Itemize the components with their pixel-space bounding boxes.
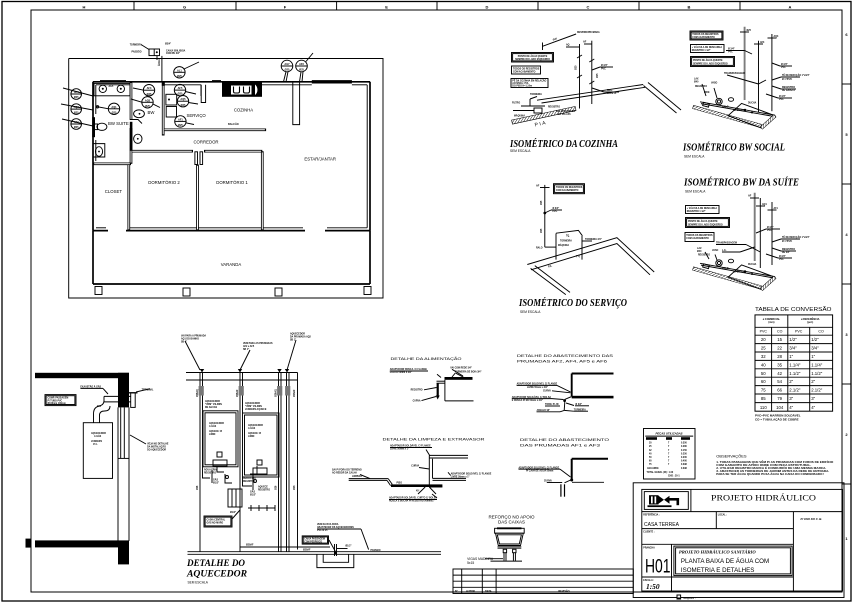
note box: registros (512, 66, 541, 74)
svg-text:LIVRE 50mm x 1": LIVRE 50mm x 1" (390, 449, 409, 451)
svg-text:DO AQUECEDOR: DO AQUECEDOR (147, 449, 166, 452)
svg-text:Ø25: Ø25 (112, 111, 117, 114)
svg-text:AQ1: AQ1 (762, 203, 767, 206)
top ticks (750, 198, 777, 210)
right leaders (766, 239, 800, 258)
varanda pillars (95, 287, 102, 295)
bw toilet (134, 134, 142, 143)
svg-text:AF1: AF1 (178, 118, 183, 121)
svg-text:AF3: AF3 (760, 41, 765, 44)
svg-text:35: 35 (777, 362, 782, 367)
varanda walls (93, 231, 370, 284)
svg-text:40: 40 (761, 362, 766, 367)
svg-text:MÁQUINA: MÁQUINA (514, 115, 525, 118)
piping below heater 2 (243, 466, 258, 490)
svg-text:DA PIA AF6: DA PIA AF6 (558, 113, 571, 116)
svg-text:PVC: PVC (795, 330, 803, 334)
pit / trench (317, 544, 354, 568)
piping below heater 1 (203, 411, 233, 483)
wall black segments (92, 117, 95, 137)
slab bottom (black) (35, 540, 118, 547)
svg-text:Ø 1"/PVC: Ø 1"/PVC (782, 241, 792, 243)
svg-text:TODOS OS REGISTROS: TODOS OS REGISTROS (692, 34, 719, 36)
svg-text:L/MIN: L/MIN (248, 436, 255, 438)
svg-text:COM ACABAMENTO: COM ACABAMENTO (513, 70, 536, 73)
svg-text:PEÇAS UTILIZADAS: PEÇAS UTILIZADAS (655, 431, 682, 435)
svg-text:60: 60 (761, 379, 766, 384)
svg-text:85: 85 (761, 396, 766, 401)
svg-text:AL1: AL1 (177, 69, 182, 72)
cliente row (642, 543, 794, 545)
svg-text:Ø25: Ø25 (181, 104, 186, 107)
vertical pipe pair 1 (200, 373, 203, 552)
svg-text:Ø25: Ø25 (541, 200, 543, 205)
floor quad right (728, 103, 775, 128)
hot water pipe (gray) (744, 27, 746, 100)
svg-text:DE AGUAS: DE AGUAS (205, 406, 218, 409)
pipe tick marks (577, 55, 594, 84)
window lines top wall (100, 81, 352, 83)
wall hatched band (512, 106, 576, 124)
svg-text:3. ABASTECER AS TORNEIRAS DE J: 3. ABASTECER AS TORNEIRAS DE JARDIM ANTE… (716, 470, 829, 473)
svg-text:PVC: PVC (767, 230, 772, 232)
svg-text:COM ACABAMENTO: COM ACABAMENTO (692, 36, 715, 39)
svg-text:REGISTRO: REGISTRO (698, 255, 710, 257)
room labels (105, 108, 336, 267)
svg-text:0.098: 0.098 (681, 468, 687, 470)
svg-text:1:50: 1:50 (646, 582, 660, 591)
door gaps bottom wall (108, 229, 126, 232)
svg-text:BALCÃO: BALCÃO (228, 123, 239, 126)
svg-text:LAV.: LAV. (694, 78, 699, 81)
svg-text:1.1/4": 1.1/4" (811, 362, 823, 367)
branch lines (722, 229, 780, 252)
gas central manifold (228, 489, 242, 507)
svg-text:DETALHE DA ALIMENTAÇÃO: DETALHE DA ALIMENTAÇÃO (391, 356, 462, 361)
svg-text:Ø 3/4": Ø 3/4" (553, 207, 560, 210)
svg-text:0.280: 0.280 (681, 446, 687, 448)
wall column cozinha/estar (293, 82, 300, 125)
vertical pipe pair 4 (287, 373, 290, 552)
fixture labels (705, 252, 717, 260)
svg-text:1. TODAS PASSAGENS QUE VÊM P/: 1. TODAS PASSAGENS QUE VÊM P/ AS PRUMADA… (716, 461, 833, 464)
svg-text:(pol.): (pol.) (807, 321, 813, 324)
svg-text:ÁGUA FRIA: ÁGUA FRIA (243, 477, 256, 480)
pump logo (648, 495, 680, 507)
svg-text:SIFONADO: SIFONADO (733, 109, 745, 112)
svg-text:AG7: AG7 (284, 63, 290, 66)
caixa d'agua (495, 528, 525, 548)
vent line to roof (543, 34, 577, 46)
svg-text:22: 22 (777, 346, 782, 351)
svg-text:PVC: PVC (553, 211, 558, 213)
svg-text:Ø25: Ø25 (74, 126, 79, 129)
svg-text:CLIENTE :: CLIENTE : (643, 531, 654, 533)
svg-text:66: 66 (777, 388, 782, 393)
note box registros (690, 31, 723, 40)
right edge hatch (760, 115, 776, 130)
svg-text:CO = TUBULAÇÃO DE COBRE: CO = TUBULAÇÃO DE COBRE (755, 417, 799, 422)
svg-text:PONTO DE ÁGUA QUENTE: PONTO DE ÁGUA QUENTE (518, 55, 548, 58)
bw shower corner (131, 120, 142, 124)
floor slab: near edge hatched band (693, 105, 762, 127)
svg-text:SEM ESCALA: SEM ESCALA (684, 155, 705, 159)
svg-text:PISO: PISO (397, 482, 403, 484)
svg-text:DAS CAIXAS: DAS CAIXAS (498, 519, 525, 524)
svg-text:GÁS: GÁS (250, 491, 255, 494)
svg-text:CAIXA CENTRAL: CAIXA CENTRAL (207, 519, 226, 522)
svg-text:AQ3: AQ3 (145, 99, 151, 102)
svg-text:TORNEIRA: TORNEIRA (530, 93, 542, 96)
svg-text:1.1/4": 1.1/4" (789, 362, 801, 367)
svg-text:H: H (83, 4, 86, 9)
svg-text:Ø25: Ø25 (177, 75, 182, 78)
svg-text:COMP. PASSAGEM: COMP. PASSAGEM (48, 397, 69, 400)
heater unit 1 (203, 411, 238, 467)
svg-text:REGISTRO: REGISTRO (548, 107, 560, 109)
fixtures (716, 260, 722, 266)
svg-text:SEM ESCALA: SEM ESCALA (520, 310, 541, 314)
svg-text:REFERÊNCIA :: REFERÊNCIA : (643, 514, 659, 517)
note box agua quente (686, 218, 730, 228)
svg-text:ISOMÉTRICO DO SERVIÇO: ISOMÉTRICO DO SERVIÇO (518, 297, 627, 309)
svg-text:DUCHA: DUCHA (748, 102, 757, 105)
faucet group left (513, 97, 545, 114)
lower thick slab (572, 396, 614, 399)
wall corner chevron (527, 238, 654, 295)
ref/local row (642, 528, 794, 530)
top roof double line (186, 372, 298, 374)
svg-text:Ø 3/4": Ø 3/4" (728, 47, 735, 50)
house exterior walls (93, 82, 370, 231)
svg-text:Ø 3/4": Ø 3/4" (779, 95, 786, 98)
svg-text:4": 4" (789, 405, 793, 410)
svg-text:15 L: 15 L (93, 444, 98, 446)
svg-text:SEM ESCALA: SEM ESCALA (510, 149, 531, 153)
svg-text:VAI COM REDE 3/4": VAI COM REDE 3/4" (450, 367, 472, 370)
svg-text:ISOMÉTRICO BW SOCIAL: ISOMÉTRICO BW SOCIAL (682, 142, 785, 154)
svg-text:RALO: RALO (536, 247, 543, 250)
interior walls (double line) (93, 82, 266, 231)
svg-text:Ø28: Ø28 (197, 485, 199, 490)
svg-text:AQUECEDOR: AQUECEDOR (186, 570, 247, 580)
servico tank (166, 94, 177, 105)
svg-text:104: 104 (776, 405, 784, 410)
svg-text:Ø25: Ø25 (576, 65, 578, 70)
suite shower (93, 144, 105, 157)
pipe assembly (429, 455, 468, 487)
svg-text:PONTO DE ÁGUA QUENTE: PONTO DE ÁGUA QUENTE (688, 220, 718, 223)
svg-text:PRUMADAS AF2, AF4, AF5 e AF6: PRUMADAS AF2, AF4, AF5 e AF6 (517, 359, 608, 364)
column letter band (top) (134, 2, 740, 10)
svg-text:AF: AF (748, 195, 752, 198)
note box valvula (686, 206, 720, 214)
svg-text:3/4": 3/4" (811, 346, 819, 351)
svg-text:1.1/2": 1.1/2" (789, 371, 801, 376)
svg-text:Ø25: Ø25 (541, 228, 543, 233)
svg-text:3/4": 3/4" (789, 346, 797, 351)
svg-text:COM PE 3/4": COM PE 3/4" (166, 52, 180, 55)
svg-text:G: G (183, 4, 186, 9)
svg-text:TORNEIRA: TORNEIRA (130, 44, 142, 47)
svg-text:VARANDA: VARANDA (221, 262, 242, 267)
svg-text:110: 110 (760, 405, 767, 410)
svg-text:DUCHA: DUCHA (748, 263, 757, 266)
svg-text:Ø28: Ø28 (294, 485, 296, 490)
svg-text:Ø25: Ø25 (178, 124, 183, 127)
svg-text:AF6: AF6 (299, 63, 304, 66)
svg-text:SERVIÇO: SERVIÇO (187, 113, 207, 118)
svg-text:RALO: RALO (722, 267, 729, 270)
row number band (right) (842, 84, 851, 484)
svg-text:H01: H01 (645, 557, 671, 578)
svg-text:PASSEIO: PASSEIO (132, 51, 142, 54)
svg-text:ML: ML (547, 264, 552, 269)
riser pipe (544, 185, 546, 247)
svg-text:REGISTRO: REGISTRO (782, 86, 795, 89)
svg-text:PRANCHA: PRANCHA (643, 546, 655, 549)
tick labels at top (566, 44, 592, 47)
svg-text:32: 32 (761, 354, 766, 359)
svg-text:AF: AF (536, 185, 540, 188)
suite bath sink counter (94, 83, 130, 95)
dimension marks (248, 505, 275, 511)
bw bath sink (134, 110, 145, 118)
svg-text:ADAPTADOR SOLDÁVEL C/ FLANGE: ADAPTADOR SOLDÁVEL C/ FLANGE (451, 473, 492, 476)
svg-text:REGISTRO: REGISTRO (782, 248, 795, 251)
svg-text:SB 1": SB 1" (181, 342, 187, 344)
transpassagem leader (716, 245, 760, 253)
svg-text:PVC: PVC (781, 67, 786, 69)
svg-text:ESTAR/JANTAR: ESTAR/JANTAR (304, 157, 336, 162)
svg-text:0.200: 0.200 (681, 457, 687, 459)
svg-text:TRANSPASSAGEM: TRANSPASSAGEM (716, 241, 737, 244)
svg-text:Ø28AQ: Ø28AQ (274, 389, 277, 397)
registro mid (544, 210, 562, 214)
kitchen counter (black) (222, 82, 262, 97)
svg-text:1.1/2": 1.1/2" (811, 371, 823, 376)
svg-text:BW: BW (148, 110, 156, 115)
svg-text:LIMPEZA: LIMPEZA (352, 475, 362, 478)
slab step (572, 458, 608, 460)
svg-text:Ø1/2": Ø1/2" (230, 512, 236, 514)
svg-text:Ø 3/4": Ø 3/4" (779, 255, 786, 258)
svg-text:PARA SE TER ÁGUA QUANDO PUXA Á: PARA SE TER ÁGUA QUANDO PUXA ÁGUA NA CAI… (716, 473, 824, 476)
svg-text:PVC: PVC (779, 259, 784, 261)
svg-text:PVC: PVC (760, 330, 768, 334)
svg-text:PONTO DE ÁGUA QUENTE: PONTO DE ÁGUA QUENTE (693, 59, 723, 62)
svg-text:P/ USO DO C. B.: P/ USO DO C. B. (801, 517, 823, 521)
bottom stamp (677, 595, 682, 600)
svg-text:4": 4" (811, 405, 815, 410)
svg-text:B: B (688, 4, 691, 9)
svg-text:VAI PARA A PRUMADA: VAI PARA A PRUMADA (181, 335, 206, 338)
ground double line (188, 551, 442, 553)
svg-text:AF3: AF3 (147, 87, 152, 90)
svg-text:AQUECE 15: AQUECE 15 (248, 432, 262, 435)
svg-text:PVC: PVC (779, 99, 784, 101)
svg-text:+ VÁLVULA DE DESCARGA: + VÁLVULA DE DESCARGA (687, 207, 718, 210)
svg-text:COZINHA: COZINHA (234, 108, 253, 113)
svg-text:AQUECEDOR: AQUECEDOR (209, 422, 224, 425)
svg-text:AGUARDE: AGUARDE (647, 467, 659, 470)
svg-text:C: C (587, 4, 590, 9)
svg-text:"VDM" 15L/MIN: "VDM" 15L/MIN (205, 404, 222, 406)
svg-text:REGISTRO: REGISTRO (243, 481, 255, 483)
svg-text:VASO: VASO (711, 82, 718, 85)
svg-text:Ø25: Ø25 (145, 105, 150, 108)
svg-text:Ø1/2": Ø1/2" (213, 483, 219, 485)
svg-text:DA INSTALAÇÃO: DA INSTALAÇÃO (147, 446, 166, 449)
svg-text:DETALHE DA LIMPEZA E EXTRAVASO: DETALHE DA LIMPEZA E EXTRAVASOR (383, 437, 485, 442)
svg-text:MÁQUINA: MÁQUINA (558, 244, 569, 247)
note box valvula (691, 45, 725, 53)
svg-text:SB 1": SB 1" (290, 340, 296, 342)
svg-text:TODOS OS REGISTROS: TODOS OS REGISTROS (556, 187, 583, 189)
svg-text:SEM ESCALA: SEM ESCALA (685, 190, 706, 194)
svg-text:1/2": 1/2" (789, 337, 797, 342)
left margin wall stubs (26, 539, 32, 548)
svg-text:A GÁS: A GÁS (209, 425, 217, 428)
svg-text:CORREDOR: CORREDOR (193, 140, 218, 145)
piping elbow (437, 380, 474, 401)
svg-text:PVC Ø 25: PVC Ø 25 (317, 530, 328, 532)
svg-text:1/2": 1/2" (811, 337, 819, 342)
svg-text:REGISTRO: REGISTRO (258, 490, 270, 492)
svg-text:Ø25: Ø25 (299, 69, 304, 72)
suite toilet (97, 123, 107, 130)
svg-text:COM GABARITO DE APOIO ONDE COM: COM GABARITO DE APOIO ONDE COM PEÇA ESTR… (716, 464, 811, 467)
cx passagem box (302, 536, 328, 544)
svg-text:REGISTRO: REGISTRO (204, 473, 216, 475)
svg-text:TÊ DE REDUÇÃO 1"x3/4": TÊ DE REDUÇÃO 1"x3/4" (782, 74, 810, 77)
svg-text:CASA TERREA: CASA TERREA (644, 522, 680, 528)
svg-text:AQ3: AQ3 (774, 35, 779, 38)
svg-text:AQUECEDOR: AQUECEDOR (290, 333, 305, 336)
svg-text:PROJETO HIDRÁULICO: PROJETO HIDRÁULICO (711, 493, 816, 503)
cavalete / caixa entry detail top (130, 43, 186, 82)
svg-text:42: 42 (777, 371, 782, 376)
svg-text:TORNEIRA: TORNEIRA (560, 240, 572, 243)
note box: ponto de agua quente (512, 53, 554, 63)
svg-text:Ø 1"/PVC: Ø 1"/PVC (782, 79, 792, 81)
svg-text:OBSERVAÇÕES: OBSERVAÇÕES (716, 454, 747, 459)
svg-text:RESPIRO/PRUMADA: RESPIRO/PRUMADA (577, 31, 600, 34)
svg-text:2. UTILIZAR REGISTRO MARCA É C: 2. UTILIZAR REGISTRO MARCA É CONDUZIDO D… (716, 467, 826, 470)
svg-text:Ø25: Ø25 (747, 30, 752, 32)
fixtures on slab (716, 98, 722, 104)
svg-text:DORMITÓRIO 1: DORMITÓRIO 1 (216, 180, 248, 185)
svg-text:CLOSET: CLOSET (105, 189, 123, 194)
svg-text:Ø28: Ø28 (275, 485, 277, 490)
svg-text:1": 1" (811, 354, 815, 359)
drop pipe (565, 480, 572, 483)
svg-text:BIDE: BIDE (704, 92, 710, 94)
svg-text:SEMPRE DO LADO ESQUERDO: SEMPRE DO LADO ESQUERDO (515, 58, 550, 61)
svg-text:PROJETO HIDRÁULICO SANITÁRIO: PROJETO HIDRÁULICO SANITÁRIO (679, 549, 756, 554)
svg-text:0.150: 0.150 (681, 450, 687, 452)
svg-text:2": 2" (789, 379, 793, 384)
note box: cota (511, 79, 548, 88)
svg-text:Ø100mm 100mm: Ø100mm 100mm (48, 403, 66, 405)
note box comp passagem (45, 395, 76, 406)
svg-text:FILTRO: FILTRO (512, 103, 520, 105)
leader diagonals to texts (437, 374, 441, 377)
heater unit 2 (243, 413, 280, 477)
svg-text:VEM PARA AS PRUMADAS: VEM PARA AS PRUMADAS (243, 342, 273, 345)
svg-text:TOTAL GERAL (M) : 1.00: TOTAL GERAL (M) : 1.00 (647, 471, 674, 474)
fixture leaders/labels (702, 84, 717, 98)
svg-text:Ø3/4": Ø3/4" (165, 43, 171, 46)
property boundary line (69, 59, 383, 299)
svg-text:54: 54 (777, 379, 782, 384)
svg-text:"VDM" 15L/MIN: "VDM" 15L/MIN (245, 406, 262, 408)
gas heater unit (83, 423, 112, 479)
pipe coupling blocks (199, 386, 291, 396)
cold riser 1 (759, 198, 761, 268)
svg-text:BW SUITE: BW SUITE (108, 121, 129, 126)
branch lines (726, 51, 792, 85)
svg-text:Nº: Nº (455, 590, 458, 593)
svg-text:DETALHE DO: DETALHE DO (186, 559, 245, 569)
svg-text:1": 1" (789, 354, 793, 359)
svg-text:0.350: 0.350 (681, 443, 687, 445)
vertical pipe pair 2 (240, 373, 243, 552)
riser circles top right pair (281, 53, 313, 82)
cold water riser (758, 41, 760, 113)
svg-text:TÊ DE REDUÇÃO 1"x3/4": TÊ DE REDUÇÃO 1"x3/4" (782, 236, 810, 239)
svg-text:Ø28AF: Ø28AF (246, 544, 254, 547)
svg-text:20: 20 (761, 337, 766, 342)
svg-text:PVC: PVC (728, 52, 733, 54)
wall column servico/cozinha (201, 85, 205, 103)
svg-text:ISOMETRIA E DETALHES: ISOMETRIA E DETALHES (681, 567, 754, 574)
svg-text:CHD : 20-1: CHD : 20-1 (668, 475, 680, 477)
svg-text:15: 15 (777, 337, 782, 342)
svg-text:28: 28 (777, 354, 782, 359)
svg-text:VEJA NO DETALHE: VEJA NO DETALHE (147, 443, 169, 446)
svg-text:2.1/2": 2.1/2" (789, 388, 801, 393)
counter edge lines (537, 85, 643, 101)
svg-text:ISOMÉTRICO BW DA SUÍTE: ISOMÉTRICO BW DA SUÍTE (683, 177, 799, 189)
svg-text:TABELA DE CONVERSÃO: TABELA DE CONVERSÃO (755, 306, 832, 313)
door jambs dorm1 (195, 152, 203, 165)
svg-text:50: 50 (761, 371, 766, 376)
svg-text:SIFONADO: SIFONADO (733, 271, 745, 274)
top tick + label (540, 187, 550, 189)
slab top (black) (35, 373, 129, 378)
left drain step (349, 479, 393, 486)
svg-text:Ø25: Ø25 (74, 96, 79, 99)
svg-text:ÁGUA: ÁGUA (158, 59, 161, 66)
svg-text:AQUECE: AQUECE (258, 486, 268, 489)
svg-text:Ø28AF: Ø28AF (293, 389, 296, 397)
top leader texts (185, 340, 296, 370)
svg-text:Ø1/2": Ø1/2" (250, 495, 256, 497)
drop pipe (564, 397, 572, 411)
floor corner right (644, 86, 677, 114)
svg-text:SEMPRE DO LADO ESQUERDO: SEMPRE DO LADO ESQUERDO (688, 223, 723, 226)
svg-text:DETALHE DO ABASTECIMENTO: DETALHE DO ABASTECIMENTO (520, 437, 609, 442)
wall column bottom (black) (118, 540, 129, 564)
project title box (674, 546, 792, 576)
svg-text:CAIXA 500L/BOIA: CAIXA 500L/BOIA (166, 50, 186, 53)
svg-text:LIVRE 50mm x 3/4": LIVRE 50mm x 3/4" (527, 386, 548, 389)
hot water pipe (gray) (754, 193, 756, 261)
svg-text:E: E (385, 4, 388, 9)
svg-text:SEMPRE DO LADO ESQUERDO: SEMPRE DO LADO ESQUERDO (693, 62, 728, 65)
svg-text:SB 1": SB 1" (243, 349, 249, 351)
